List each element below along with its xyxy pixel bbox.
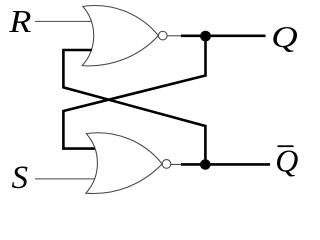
svg-text:S: S: [12, 160, 29, 196]
svg-text:Q: Q: [275, 143, 298, 179]
svg-text:R: R: [8, 3, 32, 39]
svg-text:Q: Q: [271, 19, 298, 54]
